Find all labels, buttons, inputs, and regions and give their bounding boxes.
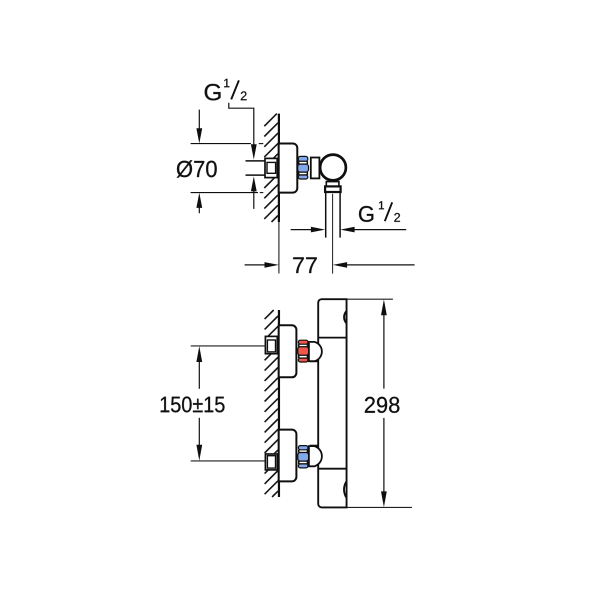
blue seal stack [298,156,309,179]
dimension 150±15 [161,346,225,461]
wall hatching bottom drawing [265,310,278,497]
wall nut lower [265,454,277,470]
union step line top [310,360,319,362]
knob hub arc bottom [344,482,346,498]
escutcheon lower [279,430,297,482]
union nut cone top [309,342,322,361]
knob hub arc top [344,311,346,323]
outlet flange [325,186,341,192]
bar bottom block line [318,468,346,470]
wall nut upper [265,336,277,353]
union step line bottom [310,445,319,447]
escutcheon upper [279,325,297,377]
handle circle [320,155,346,181]
mixer bar body [318,299,346,507]
leader G1/2 top [229,103,257,209]
dimension 77 [245,257,415,273]
red seal stack [298,340,309,362]
wall face extension line [278,222,280,274]
dimension line G1/2 right [291,227,407,233]
valve body [311,158,320,179]
wall hatching top drawing [264,114,278,222]
label G 1/2 top [205,79,247,101]
wall face line [278,114,280,222]
wall face line bottom drawing [278,310,280,497]
handle neck [326,182,339,187]
dimension Ø70 [177,110,264,214]
blue seal stack lower [298,446,309,468]
outlet tube [326,192,340,238]
supply pipe stub [246,161,267,175]
escutcheon rosette [279,144,298,193]
union nut cone bottom [309,446,322,466]
extension line lower connection [191,460,266,462]
label G 1/2 right [359,201,400,222]
bar top block line [318,337,346,339]
wall nut fitting [265,158,277,177]
extension line upper connection [191,345,266,347]
tube centerline [332,194,334,274]
dimension 298 [347,299,412,507]
